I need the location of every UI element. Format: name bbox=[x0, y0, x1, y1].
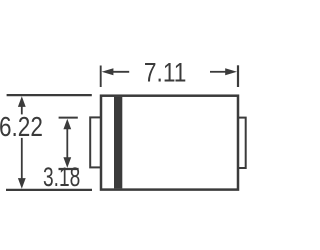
dimension 3.18 shaft bbox=[66, 128, 68, 159]
dimension 6.22 bottom arrowhead bbox=[18, 178, 26, 189]
svg-text:3.18: 3.18 bbox=[43, 162, 80, 192]
dimension 3.18 down arrowhead bbox=[63, 157, 71, 168]
dimension 7.11 left arrow shaft bbox=[112, 71, 129, 73]
dimension 6.22 top extension line bbox=[7, 94, 92, 96]
dimension 3.18 top tick bbox=[59, 117, 78, 119]
dimension 6.22 top arrowhead bbox=[18, 96, 26, 107]
dimension 7.11 right arrow shaft bbox=[210, 71, 226, 73]
right terminal tab bbox=[238, 118, 246, 168]
dimension 7.11 left extension tick bbox=[100, 66, 102, 88]
dimension 6.22 shaft upper segment bbox=[21, 106, 23, 114]
dimension 3.18 up arrowhead bbox=[63, 119, 71, 130]
left terminal tab bbox=[90, 117, 101, 167]
dimension 7.11 right arrowhead bbox=[225, 68, 237, 75]
dimension 6.22 bottom extension line bbox=[6, 189, 92, 191]
diode package body outline bbox=[101, 96, 238, 190]
svg-text:7.11: 7.11 bbox=[144, 58, 187, 88]
dimension 7.11 left arrowhead bbox=[102, 68, 114, 75]
dimension 3.18 bottom tick bbox=[59, 168, 79, 170]
dimension 7.11 right extension tick bbox=[237, 65, 239, 87]
cathode band bbox=[114, 97, 122, 188]
dimension 6.22 shaft lower segment bbox=[21, 138, 23, 180]
